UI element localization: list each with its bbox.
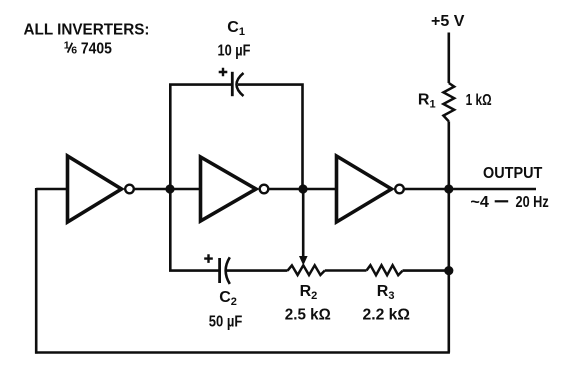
svg-text:7405: 7405 [81,41,112,58]
wire: C2 to R2 [227,269,288,272]
polarity + of C1 [219,68,228,77]
svg-text:OUTPUT: OUTPUT [483,165,542,182]
wire: R2 to R3 [325,269,367,272]
wire: feedback right lower vertical (node D down) [447,271,450,353]
svg-text:1 kΩ: 1 kΩ [466,92,492,109]
node B junction dot [298,184,307,193]
label ~4 - 20 Hz [470,194,548,211]
capacitor C2 [220,257,230,284]
wire: node A down and over to C2 [170,189,219,271]
wire: node A up and over to C1 [170,85,231,190]
wire: feedback bottom horizontal [35,351,450,354]
potentiometer R2 [288,265,325,275]
wire: wiper from node B down to R2 [302,189,305,257]
note: 1/6 7405 value [64,39,112,57]
wire: C1 over and down to node B [238,85,303,189]
svg-text:20 Hz: 20 Hz [516,194,549,211]
wire: +5V down to R1 [447,33,450,84]
wire: U3 output to output terminal [404,188,536,191]
inverter U2 [201,157,269,221]
svg-text:ALL INVERTERS:: ALL INVERTERS: [24,22,150,39]
resistor R1 [443,83,454,121]
inverter U1 [68,156,134,222]
wire: U1 output to U2 input [135,188,202,191]
svg-text:2.2 kΩ: 2.2 kΩ [363,307,411,324]
wire: node C down to node D [447,189,450,271]
node D junction dot [444,266,453,275]
svg-text:+5 V: +5 V [431,13,465,30]
wire: R3 to node D [403,269,449,272]
svg-text:2.5 kΩ: 2.5 kΩ [285,307,331,324]
svg-text:50 µF: 50 µF [209,314,243,331]
node A junction dot [165,184,174,193]
node C junction dot [444,184,453,193]
polarity + of C2 [204,254,213,263]
svg-text:6: 6 [71,45,77,57]
wire: feedback left vertical [35,188,38,354]
resistor R3 [367,265,403,275]
wiper arrowhead of R2 [299,256,308,266]
wire: input to inverter U1 [36,188,69,191]
svg-text:10 µF: 10 µF [218,43,251,60]
svg-text:~4: ~4 [470,194,489,211]
capacitor C1 [232,72,243,96]
wire: U2 output to U3 input [269,188,337,191]
wire: R1 down to node C [447,121,450,189]
inverter U3 [337,156,404,222]
